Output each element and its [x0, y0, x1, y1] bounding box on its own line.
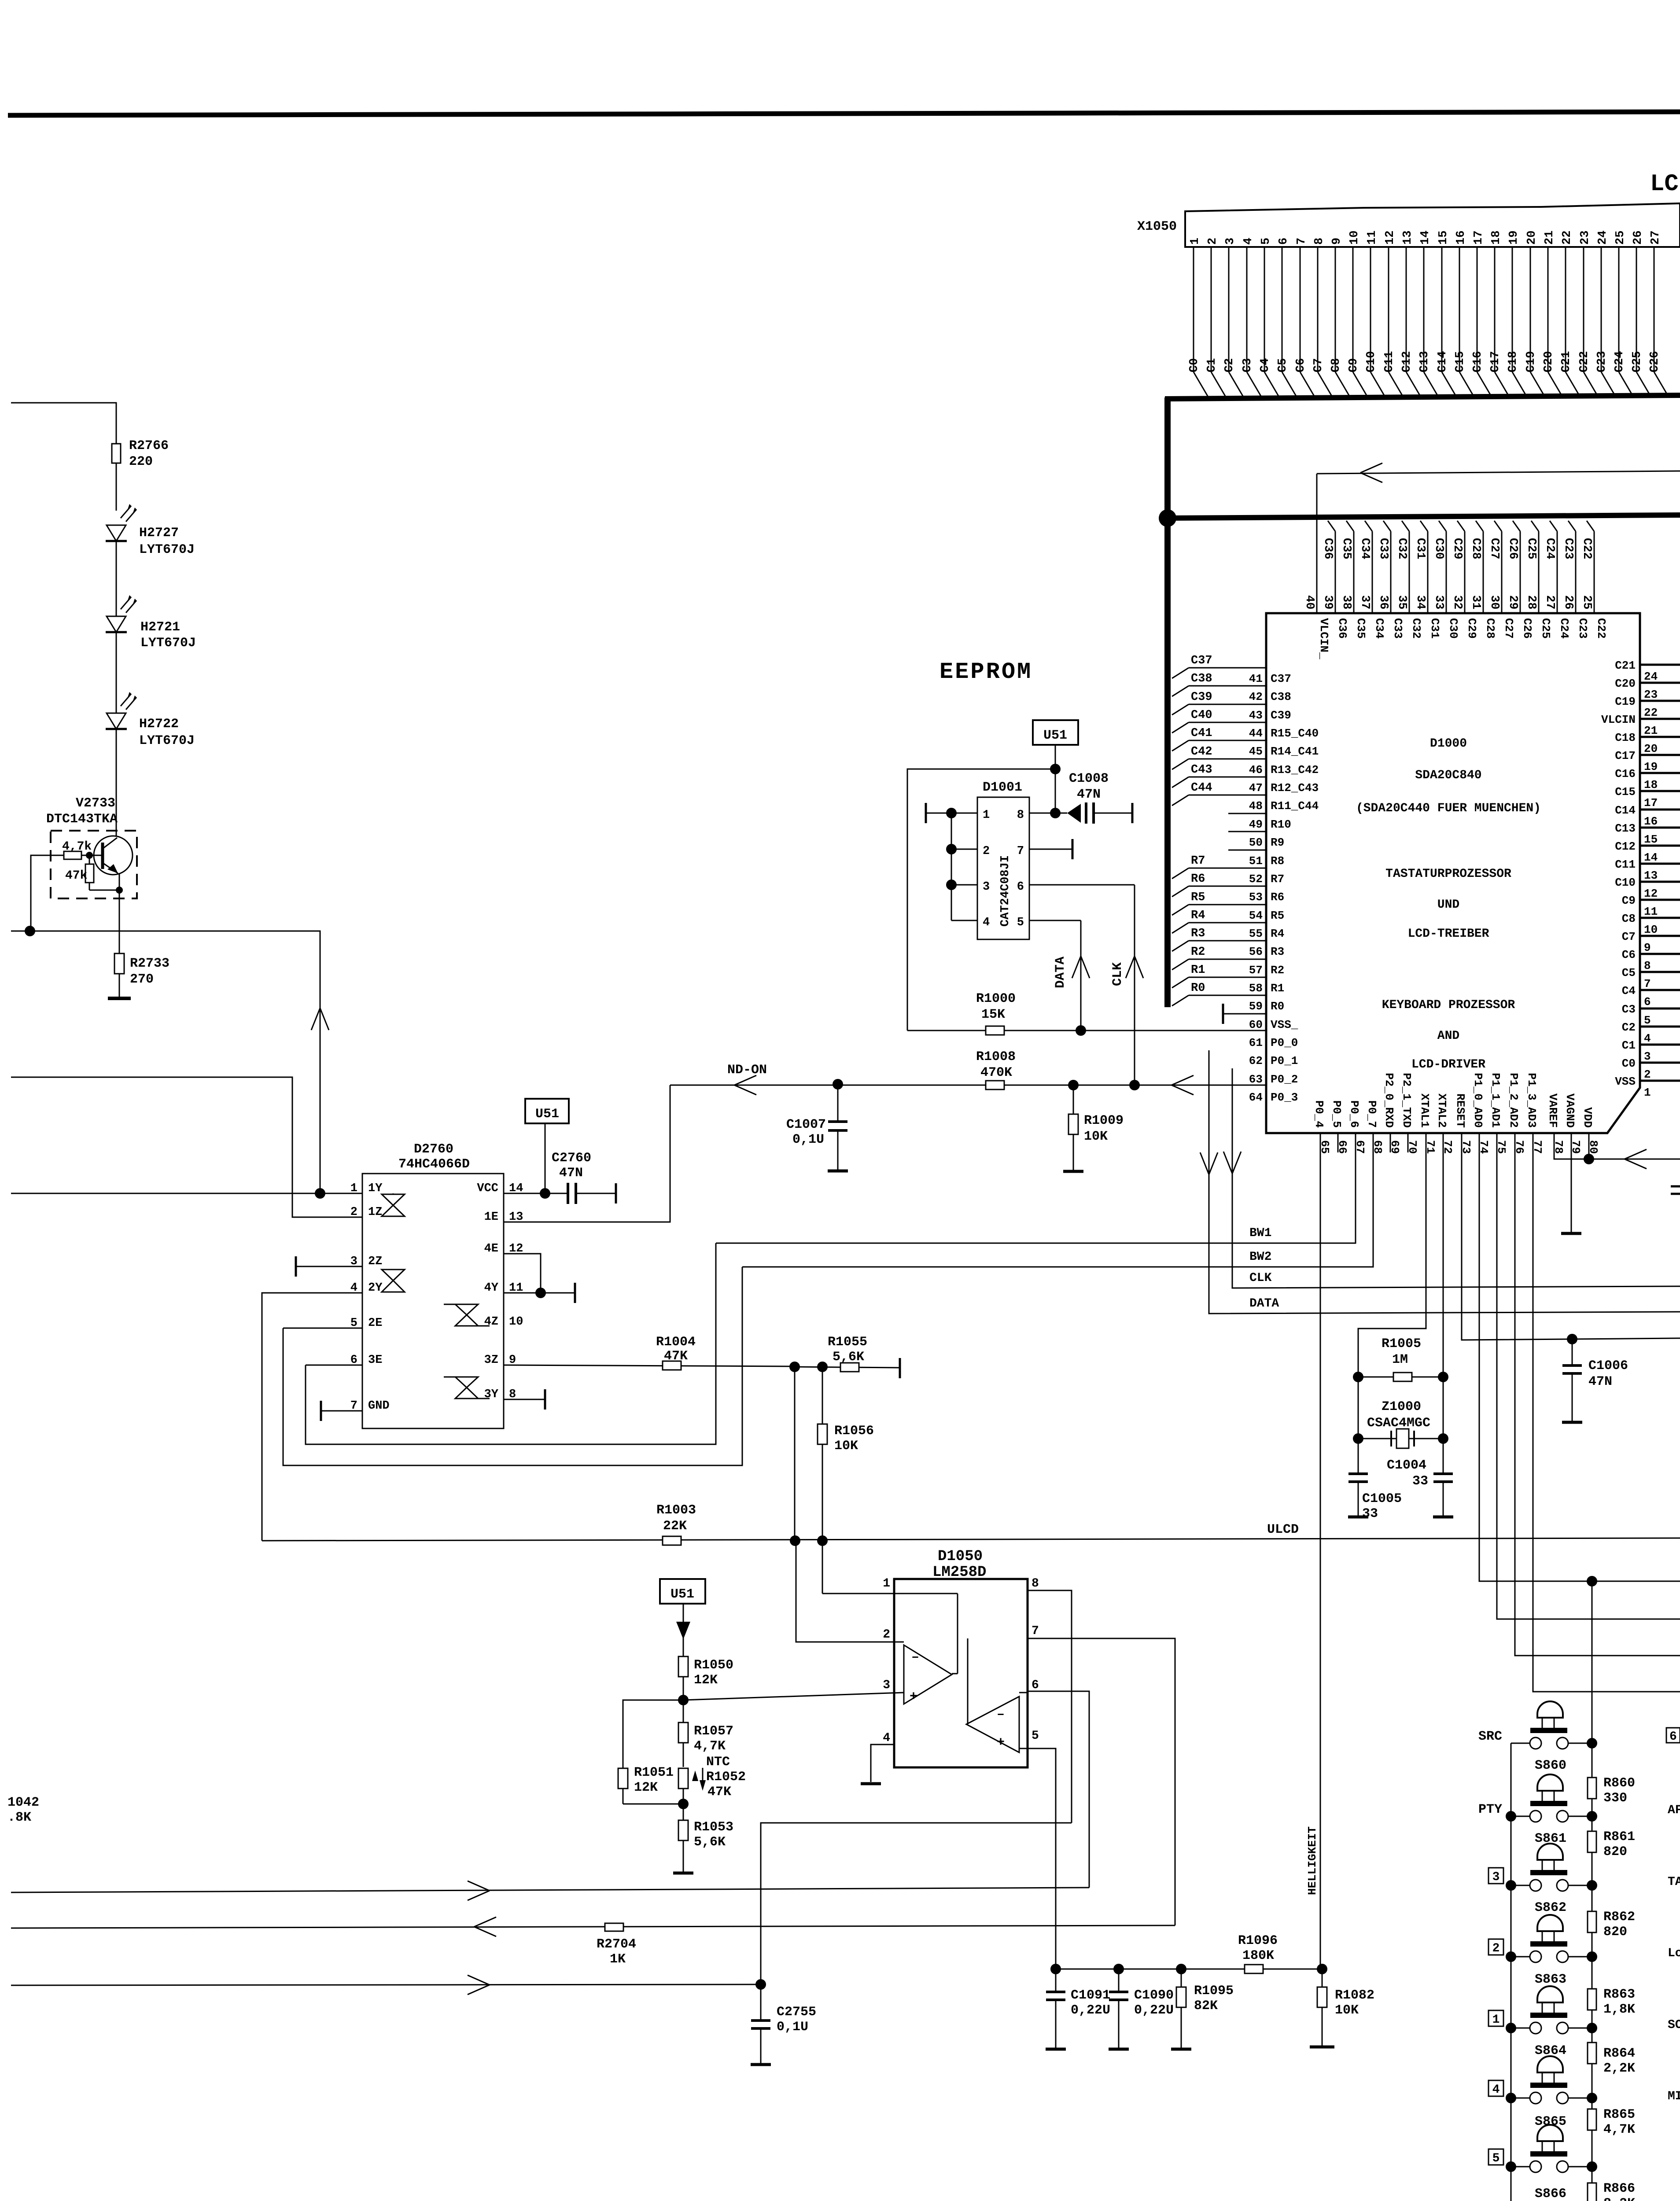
led H2722 [107, 713, 126, 729]
svg-text:C10: C10 [1365, 351, 1378, 372]
resistor R1082 [1322, 1969, 1323, 1988]
svg-text:VSS: VSS [1615, 1075, 1636, 1088]
svg-text:C22: C22 [1580, 538, 1593, 559]
capacitor C1005 [1358, 1439, 1359, 1474]
svg-text:C17: C17 [1489, 351, 1502, 372]
svg-text:13: 13 [1644, 869, 1658, 882]
svg-text:R9: R9 [1271, 836, 1284, 849]
wire P1_3_AD3 [1533, 1134, 1680, 1692]
X1050 pin 14 wire [1423, 247, 1425, 372]
junction keypad right 4 [1587, 2093, 1597, 2103]
svg-text:C16: C16 [1615, 767, 1636, 780]
D1000 pin 45 wire from bus [1172, 740, 1189, 751]
X1050 pin 13 wire [1406, 247, 1407, 372]
svg-text:23: 23 [1579, 231, 1592, 245]
svg-text:11: 11 [1644, 905, 1658, 918]
svg-text:1M: 1M [1392, 1352, 1408, 1367]
wire P0_7 to BW2 [742, 1134, 1373, 1267]
D1000 pin 16 wire to edge [1640, 809, 1680, 811]
svg-text:S861: S861 [1535, 1831, 1566, 1846]
transmission gate 3 (3Z/3Y) [455, 1377, 478, 1388]
junction eeprom pin3 [946, 880, 957, 890]
ground C1004 [1433, 1516, 1453, 1519]
X1050 pin 3 wire [1228, 247, 1230, 372]
D1000 pin 55 wire from bus [1172, 923, 1189, 933]
junction C1007 [833, 1079, 843, 1089]
svg-text:29: 29 [1506, 595, 1519, 609]
svg-text:S860: S860 [1535, 1758, 1566, 1773]
resistor R864 [1588, 2043, 1596, 2064]
D1000 top pin 35 flag wire [1402, 521, 1409, 531]
resistor R1055 [840, 1363, 859, 1372]
resistor R860 [1588, 1778, 1596, 1799]
wire U51 to 4066 VCC [545, 1123, 546, 1193]
wire XTAL2 [1443, 1134, 1444, 1377]
svg-text:8: 8 [1313, 238, 1326, 245]
svg-text:C15: C15 [1615, 785, 1636, 799]
svg-text:DATA: DATA [1249, 1297, 1279, 1310]
wire DATA from eeprom pin5 [1029, 920, 1081, 921]
D1000 top pin 30 flag wire [1494, 521, 1502, 531]
svg-text:47K: 47K [707, 1785, 731, 1800]
svg-text:BW1: BW1 [1249, 1226, 1271, 1240]
svg-text:C31: C31 [1414, 538, 1427, 559]
junction eeprom pin1 [946, 808, 957, 818]
resistor R862 [1588, 1911, 1596, 1932]
svg-text:R861: R861 [1603, 1829, 1635, 1844]
svg-text:R4: R4 [1191, 909, 1205, 922]
resistor R1009 [1073, 1085, 1074, 1115]
junction RESET/C1006 [1567, 1334, 1577, 1344]
svg-text:C13: C13 [1418, 351, 1431, 372]
transmission gate 4 (4Y/4Z) [455, 1304, 478, 1315]
svg-text:35: 35 [1395, 595, 1408, 609]
svg-text:R2733: R2733 [130, 956, 169, 971]
svg-text:C1004: C1004 [1387, 1458, 1426, 1473]
svg-text:R10: R10 [1271, 818, 1291, 831]
svg-text:R8: R8 [1271, 854, 1284, 868]
svg-text:R1004: R1004 [656, 1335, 696, 1350]
svg-text:27: 27 [1543, 595, 1556, 609]
wire P0_3 / ND-ON line [670, 1085, 1266, 1086]
svg-text:6: 6 [1669, 1730, 1677, 1744]
svg-text:52: 52 [1249, 872, 1263, 886]
svg-text:42: 42 [1249, 690, 1263, 703]
svg-text:10K: 10K [834, 1439, 858, 1454]
svg-text:14: 14 [1419, 231, 1432, 245]
D1000 pin 22 wire to edge [1640, 700, 1680, 702]
svg-text:R1096: R1096 [1238, 1933, 1278, 1948]
D1000 pin 44 wire from bus [1172, 722, 1189, 733]
svg-text:R1082: R1082 [1335, 1988, 1374, 2003]
D1000 pin 60 VSS_ wire [1223, 1013, 1266, 1015]
svg-text:R1: R1 [1271, 982, 1284, 995]
svg-text:4E: 4E [484, 1242, 498, 1255]
svg-text:26: 26 [1632, 231, 1645, 245]
junction R1009 [1068, 1080, 1079, 1090]
svg-text:R865: R865 [1603, 2107, 1635, 2122]
svg-text:13: 13 [1401, 231, 1415, 245]
svg-text:C25: C25 [1631, 351, 1644, 372]
svg-text:R2704: R2704 [597, 1937, 636, 1952]
svg-text:C23: C23 [1562, 538, 1575, 559]
svg-text:C31: C31 [1428, 618, 1441, 639]
D1000 pin 51 stub [1228, 850, 1266, 851]
wire opamp pin8 out [1028, 1590, 1072, 1823]
svg-text:0,1U: 0,1U [792, 1132, 824, 1147]
svg-text:VLCIN_: VLCIN_ [1317, 618, 1330, 659]
wire P0_5 stub [1337, 1134, 1339, 1152]
svg-text:R862: R862 [1603, 1910, 1635, 1925]
svg-text:8: 8 [1032, 1577, 1039, 1590]
svg-text:C3: C3 [1241, 358, 1254, 372]
junction keypad left PTY [1506, 1811, 1516, 1822]
svg-text:C21: C21 [1560, 351, 1573, 372]
svg-text:LYT670J: LYT670J [139, 733, 195, 748]
svg-text:20: 20 [1644, 742, 1658, 755]
svg-text:D1001: D1001 [983, 780, 1022, 795]
svg-text:V2733: V2733 [76, 796, 115, 811]
D1000 pin 6 wire to edge [1640, 989, 1680, 991]
svg-text:4,7K: 4,7K [1603, 2122, 1635, 2137]
svg-text:C30: C30 [1432, 538, 1445, 559]
connector stub right edge [1671, 1185, 1680, 1188]
resistor R1004 [663, 1361, 681, 1370]
resistor R1057 [683, 1700, 684, 1723]
svg-text:1E: 1E [484, 1211, 498, 1224]
svg-text:4Y: 4Y [484, 1281, 499, 1295]
switch contacts row 1 [1511, 2028, 1530, 2029]
wire 4066 pin14 VCC [504, 1193, 568, 1194]
svg-text:C35: C35 [1340, 538, 1353, 559]
svg-text:50: 50 [1249, 836, 1263, 849]
svg-text:74HC4066D: 74HC4066D [398, 1157, 470, 1172]
svg-text:P0_2: P0_2 [1271, 1073, 1298, 1086]
X1050 pin 19 wire [1512, 247, 1513, 372]
svg-text:C7: C7 [1312, 358, 1325, 372]
svg-text:R0: R0 [1271, 1000, 1284, 1013]
svg-text:C21: C21 [1615, 659, 1636, 672]
svg-text:47N: 47N [1588, 1374, 1612, 1389]
wire into 4066 pin1 [11, 1193, 362, 1194]
junction keypad left 2 [1506, 1951, 1516, 1962]
eeprom D1001 body [977, 797, 1029, 939]
junction pin1/ULCD [817, 1535, 828, 1546]
svg-text:CAT24C08JI: CAT24C08JI [999, 855, 1012, 927]
svg-text:C24: C24 [1613, 351, 1626, 372]
wire P0_6 to BW1 [716, 1134, 1356, 1243]
svg-text:7: 7 [1644, 977, 1651, 990]
svg-text:4: 4 [1644, 1032, 1651, 1045]
border line top [8, 112, 1680, 115]
svg-text:R1055: R1055 [828, 1335, 867, 1350]
wire U51 to VCC node [1055, 745, 1056, 813]
svg-text:U51: U51 [671, 1587, 694, 1602]
terminal R1055 [899, 1358, 901, 1378]
transistor V2733 [94, 836, 133, 875]
svg-text:2Z: 2Z [368, 1255, 382, 1268]
D1000 pin 5 wire to edge [1640, 1008, 1680, 1010]
wire RESET [1462, 1134, 1680, 1340]
resistor R1053 [683, 1788, 684, 1820]
svg-text:–: – [997, 1707, 1005, 1722]
wire P0_2 to CLK line [1232, 1068, 1680, 1288]
svg-text:C24: C24 [1558, 618, 1571, 639]
junction 4066 pin1 [315, 1188, 325, 1199]
svg-text:7: 7 [1295, 238, 1308, 245]
svg-text:63: 63 [1249, 1073, 1263, 1086]
svg-text:C19: C19 [1615, 695, 1636, 708]
wire ULCD line [262, 1538, 1680, 1541]
junction R1053 top [678, 1799, 689, 1809]
wire 4066 pin7 GND terminal [321, 1410, 362, 1412]
svg-text:C34: C34 [1358, 538, 1371, 559]
svg-text:C25: C25 [1539, 618, 1552, 639]
arrow CLK up [1126, 956, 1135, 978]
svg-text:2: 2 [1206, 238, 1219, 245]
svg-text:R7: R7 [1191, 854, 1205, 868]
ground R1053 [673, 1872, 693, 1875]
svg-text:47: 47 [1249, 781, 1263, 795]
svg-text:45: 45 [1249, 745, 1263, 758]
junction keypad left 5 [1506, 2161, 1516, 2172]
svg-text:NTC: NTC [706, 1755, 730, 1770]
svg-text:0,22U: 0,22U [1134, 2003, 1174, 2018]
svg-text:C14: C14 [1615, 804, 1636, 817]
wire 4066 pin2 (1Z) [11, 1077, 362, 1217]
svg-text:330: 330 [1603, 1791, 1627, 1806]
svg-text:10: 10 [1644, 923, 1658, 936]
resistor R1050 [678, 1656, 688, 1677]
junction line3/C2755 [755, 1979, 766, 1990]
svg-text:R1052: R1052 [706, 1770, 746, 1785]
wire 4066 pin13 (1E) to ND-ON [504, 1085, 670, 1222]
svg-text:C17: C17 [1615, 749, 1636, 762]
junction eeprom pin8 [1050, 808, 1061, 818]
svg-text:53: 53 [1249, 891, 1263, 904]
ground VAGND [1561, 1232, 1581, 1235]
D1000 pin 17 wire to edge [1640, 790, 1680, 792]
svg-text:21: 21 [1644, 724, 1658, 737]
svg-text:C14: C14 [1436, 351, 1449, 372]
svg-text:33: 33 [1432, 595, 1445, 609]
wire 4066 pin11 (4Y) terminal [504, 1292, 575, 1294]
svg-text:R2: R2 [1271, 964, 1284, 977]
junction Z1000 right [1438, 1433, 1448, 1444]
wire BW2 to 4066 2E [283, 1267, 742, 1465]
svg-text:C6: C6 [1294, 358, 1308, 372]
svg-text:C11: C11 [1383, 351, 1396, 372]
wire BW1 to 4066 3E [306, 1243, 716, 1444]
svg-text:C19: C19 [1525, 351, 1538, 372]
svg-text:Lo: Lo [1668, 1947, 1680, 1960]
svg-text:D2760: D2760 [414, 1142, 453, 1157]
D1000 pin 23 wire to edge [1640, 682, 1680, 684]
svg-text:C22: C22 [1595, 618, 1608, 639]
svg-text:19: 19 [1644, 760, 1658, 773]
svg-text:C5: C5 [1622, 966, 1636, 979]
svg-text:7: 7 [1032, 1624, 1039, 1638]
capacitor C1006 [1572, 1339, 1573, 1366]
X1050 pin 11 wire [1370, 247, 1371, 372]
svg-text:23: 23 [1644, 688, 1658, 701]
svg-text:1: 1 [1644, 1086, 1651, 1099]
junction Z1000 left [1353, 1433, 1363, 1444]
D1000 pin 42 wire from bus [1172, 686, 1189, 696]
svg-text:46: 46 [1249, 763, 1263, 777]
svg-text:10: 10 [509, 1315, 523, 1329]
svg-text:C1: C1 [1622, 1039, 1636, 1052]
wire VAREF [1554, 1134, 1589, 1159]
wire VCC to R1000 branch [907, 769, 1055, 1031]
svg-text:C38: C38 [1271, 690, 1291, 703]
ground R1082 [1310, 2046, 1334, 2049]
svg-text:12: 12 [1644, 887, 1658, 900]
svg-text:44: 44 [1249, 727, 1263, 740]
resistor R1051 [618, 1768, 628, 1789]
resistor 4.7k (base) [64, 851, 81, 859]
D1000 top pin 27 flag wire [1550, 521, 1557, 531]
svg-text:C4: C4 [1622, 984, 1636, 997]
svg-text:7: 7 [1017, 845, 1024, 858]
svg-text:R1003: R1003 [656, 1503, 696, 1518]
capacitor C1091 [1055, 1969, 1057, 1992]
junction RC row pin5 [1050, 1964, 1061, 1974]
svg-text:8,2K: 8,2K [1603, 2196, 1635, 2201]
svg-text:RESET: RESET [1454, 1093, 1467, 1128]
svg-text:12K: 12K [694, 1673, 718, 1688]
ground R1095 [1171, 2048, 1191, 2051]
svg-text:3E: 3E [368, 1354, 382, 1367]
svg-text:8: 8 [1644, 959, 1651, 972]
svg-text:C2755: C2755 [777, 2005, 816, 2020]
svg-text:15: 15 [1644, 833, 1658, 846]
svg-text:C0: C0 [1188, 358, 1201, 372]
junction U51/VCC [1050, 764, 1061, 774]
switch S86x dome row 3 [1537, 1844, 1563, 1860]
svg-text:3: 3 [883, 1678, 890, 1692]
svg-text:R4: R4 [1271, 927, 1284, 940]
svg-text:C10: C10 [1615, 876, 1636, 889]
svg-text:R5: R5 [1191, 891, 1205, 904]
svg-text:6: 6 [1644, 995, 1651, 1008]
svg-text:38: 38 [1340, 595, 1353, 609]
svg-text:C28: C28 [1469, 538, 1482, 559]
svg-text:C27: C27 [1488, 538, 1501, 559]
svg-text:CLK: CLK [1249, 1271, 1272, 1285]
svg-text:11: 11 [1366, 231, 1379, 245]
D1000 pin 18 wire to edge [1640, 772, 1680, 774]
svg-text:C13: C13 [1615, 822, 1636, 835]
svg-text:180K: 180K [1242, 1948, 1274, 1963]
svg-text:S862: S862 [1535, 1900, 1566, 1915]
resistor R863 [1588, 1989, 1596, 2010]
svg-text:R2: R2 [1191, 946, 1205, 959]
junction keypad left 3 [1506, 1880, 1516, 1891]
svg-text:LCD-TREIBER: LCD-TREIBER [1408, 927, 1489, 941]
opamp B triangle [966, 1697, 1019, 1752]
svg-text:C33: C33 [1391, 618, 1404, 639]
svg-text:+: + [997, 1735, 1005, 1750]
svg-text:+: + [910, 1689, 917, 1704]
svg-text:ND-ON: ND-ON [727, 1063, 767, 1078]
svg-text:8: 8 [1017, 809, 1024, 822]
junction keypad right 5 [1587, 2161, 1597, 2172]
svg-text:MIX: MIX [1668, 2090, 1680, 2103]
opamp B output riser [966, 1724, 968, 1725]
junction R1005 left [1353, 1372, 1363, 1382]
bus 2 horizontal (to D1000 top) [1168, 515, 1680, 518]
switch S86x dome row SRC [1537, 1701, 1563, 1718]
ground opamp pin4 [861, 1782, 881, 1785]
wire 4066 pin8 (3Y) terminal [504, 1399, 545, 1400]
svg-text:VAREF: VAREF [1546, 1093, 1559, 1128]
svg-text:C30: C30 [1447, 618, 1460, 639]
svg-text:C29: C29 [1465, 618, 1478, 639]
svg-text:XTAL1: XTAL1 [1418, 1093, 1431, 1128]
svg-text:C2: C2 [1622, 1021, 1636, 1034]
svg-text:C23: C23 [1576, 618, 1589, 639]
svg-text:24: 24 [1644, 670, 1658, 683]
svg-text:P2_0_RXD: P2_0_RXD [1382, 1073, 1396, 1128]
X1050 pin 20 wire [1530, 247, 1531, 372]
svg-text:C38: C38 [1191, 672, 1212, 685]
svg-text:57: 57 [1249, 964, 1263, 977]
svg-text:TASTATURPROZESSOR: TASTATURPROZESSOR [1385, 867, 1511, 881]
svg-text:R1005: R1005 [1382, 1336, 1421, 1351]
svg-text:R1008: R1008 [976, 1049, 1016, 1064]
resistor R1095 [1181, 1969, 1182, 1988]
wire TXD stub [1407, 1134, 1409, 1152]
svg-text:36: 36 [1377, 595, 1390, 609]
D1000 pin 48 wire from bus [1172, 795, 1189, 806]
X1050 pin 10 wire [1352, 247, 1354, 372]
svg-text:XTAL2: XTAL2 [1435, 1093, 1448, 1128]
svg-text:C23: C23 [1595, 351, 1609, 372]
arrow down from U51 [683, 1604, 684, 1657]
X1050 pin 27 wire [1654, 247, 1655, 372]
resistor R2704 [605, 1923, 623, 1931]
svg-text:1: 1 [883, 1577, 890, 1590]
svg-text:16: 16 [1644, 815, 1658, 828]
resistor 47k [89, 855, 90, 865]
svg-text:12K: 12K [634, 1780, 658, 1795]
junction 4066 pin11 [535, 1288, 546, 1298]
svg-text:5: 5 [1017, 916, 1024, 929]
svg-text:5: 5 [1492, 2152, 1500, 2165]
svg-text:R0: R0 [1191, 982, 1205, 995]
svg-text:R1057: R1057 [694, 1724, 733, 1739]
svg-text:R1000: R1000 [976, 991, 1016, 1006]
svg-text:KEYBOARD PROZESSOR: KEYBOARD PROZESSOR [1382, 998, 1515, 1012]
svg-text:PTY: PTY [1478, 1802, 1502, 1817]
svg-text:55: 55 [1249, 927, 1263, 940]
resistor R865 [1588, 2109, 1596, 2130]
svg-text:2: 2 [1644, 1068, 1651, 1081]
switch S86x dome row 4 [1537, 2056, 1563, 2072]
svg-text:C36: C36 [1336, 618, 1349, 639]
svg-text:R14_C41: R14_C41 [1271, 745, 1319, 758]
wire opamp pin7 out [1028, 1638, 1175, 1925]
connector X1050 box [1185, 203, 1680, 247]
resistor R1003 [663, 1536, 681, 1545]
svg-text:C25: C25 [1525, 538, 1538, 559]
junction emitter [116, 887, 123, 894]
svg-text:4: 4 [1242, 238, 1255, 245]
svg-text:4: 4 [1492, 2083, 1500, 2097]
junction pin2/ULCD [790, 1535, 800, 1546]
wire riser to pin1 [11, 931, 320, 1193]
